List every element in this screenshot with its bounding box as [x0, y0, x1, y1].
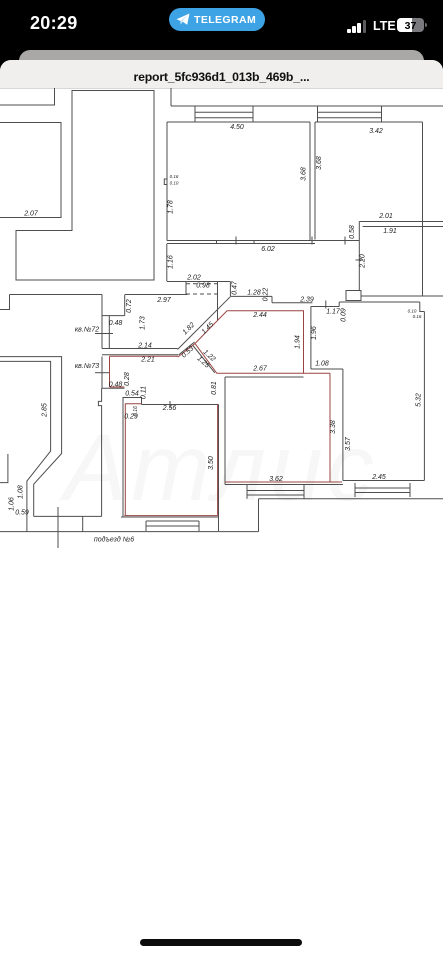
kv72 door jamb walls — [102, 295, 109, 349]
svg-text:5.32: 5.32 — [416, 393, 423, 407]
svg-text:2.21: 2.21 — [140, 357, 155, 364]
right room left wall — [314, 122, 316, 240]
wall 2.20 — [356, 222, 364, 291]
left outer wall with notch — [98, 388, 101, 516]
svg-text:0.47: 0.47 — [232, 280, 239, 295]
wall 6.02 — [167, 240, 359, 242]
wall 0.81 double — [224, 377, 226, 485]
duct shaft — [346, 291, 361, 301]
status clock — [30, 13, 78, 34]
svg-text:0.98: 0.98 — [196, 283, 210, 290]
wall 5.32 — [423, 312, 425, 481]
courtyard upper outline — [0, 295, 102, 310]
dim line 2.39 — [272, 301, 326, 309]
room 3.62 bottom wall — [225, 484, 343, 486]
dim ticks 6.02 — [236, 237, 345, 245]
wall 6.02 lower line — [167, 243, 315, 245]
hall diagonal B — [179, 342, 215, 373]
svg-text:0.72: 0.72 — [126, 299, 133, 313]
big room left wall — [122, 398, 124, 517]
baseline step up — [259, 499, 443, 532]
kv72 leader — [95, 333, 113, 335]
door ticks on 6.02 — [217, 241, 255, 244]
right room inner top wall — [315, 121, 423, 123]
window W2 right room — [318, 106, 382, 122]
stacked background card — [19, 50, 424, 80]
entrance mark — [57, 507, 59, 548]
svg-text:0.48: 0.48 — [109, 382, 123, 389]
wall 0.47 — [230, 282, 272, 297]
svg-text:3.68: 3.68 — [301, 167, 308, 181]
svg-text:2.56: 2.56 — [162, 405, 177, 412]
svg-text:1.94: 1.94 — [295, 335, 302, 349]
svg-text:2.02: 2.02 — [186, 275, 201, 282]
svg-text:2.67: 2.67 — [252, 366, 268, 373]
svg-text:кв.№72: кв.№72 — [75, 327, 99, 334]
svg-text:0.09: 0.09 — [341, 308, 348, 322]
left edge box — [0, 454, 8, 483]
svg-text:2.07: 2.07 — [23, 211, 39, 218]
big room bottom wall — [121, 516, 219, 518]
building baseline — [0, 531, 259, 533]
svg-text:0.28: 0.28 — [124, 372, 131, 386]
big room step top — [123, 398, 142, 405]
wall 1.16 — [166, 244, 168, 281]
svg-text:1.78: 1.78 — [168, 200, 175, 214]
svg-text:0.11: 0.11 — [141, 386, 148, 399]
floor plan SVG inserted here — [0, 88, 443, 648]
svg-text:2.20: 2.20 — [360, 254, 367, 269]
hall diagonal A — [178, 297, 231, 350]
svg-text:0.22: 0.22 — [263, 288, 270, 302]
red room hexagon — [195, 311, 304, 374]
window W4 — [247, 485, 304, 499]
red big room right wall — [217, 405, 219, 516]
svg-text:1.28: 1.28 — [247, 290, 261, 297]
svg-text:0.59: 0.59 — [15, 510, 29, 517]
wall 1.91 — [363, 226, 443, 228]
svg-text:2.85: 2.85 — [42, 403, 49, 418]
svg-text:2.97: 2.97 — [156, 297, 172, 304]
svg-text:1.08: 1.08 — [18, 485, 25, 499]
wall 1.96 — [310, 307, 312, 370]
svg-text:0.10: 0.10 — [170, 181, 179, 186]
red wall 0.48 left — [110, 356, 125, 387]
wall 2.97 — [125, 294, 188, 296]
wall 2.14 — [102, 348, 178, 350]
window W3 bottom — [146, 521, 199, 531]
top-left room stub — [0, 88, 55, 105]
dim line 1.28 — [271, 296, 273, 302]
svg-text:1.17: 1.17 — [326, 309, 341, 316]
red big room left wall — [124, 404, 126, 516]
red corner big room — [125, 403, 141, 405]
central room left wall — [166, 122, 168, 241]
wall 0.72 — [102, 295, 125, 316]
svg-text:0.53: 0.53 — [181, 345, 196, 359]
svg-text:1.91: 1.91 — [383, 228, 397, 235]
svg-text:0.58: 0.58 — [349, 225, 356, 239]
central room inner top wall — [167, 121, 310, 123]
svg-text:0.54: 0.54 — [125, 391, 139, 398]
red room 3.62 bottom — [225, 481, 330, 483]
red big room bottom — [124, 515, 217, 517]
right room right wall — [422, 122, 424, 296]
svg-text:2.01: 2.01 — [378, 213, 393, 220]
svg-text:0.10: 0.10 — [408, 309, 417, 314]
room 2.07 outline — [0, 123, 61, 218]
left lower building inner — [0, 361, 51, 531]
wall to door 0.98 — [167, 282, 231, 321]
home indicator — [140, 939, 302, 946]
room 3.62 top wall — [225, 376, 304, 378]
svg-text:2.39: 2.39 — [299, 297, 314, 304]
wall 1.17 — [311, 306, 339, 308]
central room right wall — [309, 122, 311, 241]
red wall 2.21 — [110, 355, 179, 357]
kv73 leader — [95, 372, 110, 374]
svg-text:4.50: 4.50 — [230, 124, 244, 131]
svg-text:3.42: 3.42 — [369, 128, 383, 135]
window W1 central room — [195, 106, 253, 122]
svg-text:0.81: 0.81 — [211, 381, 218, 395]
wall 2.21 — [102, 354, 178, 356]
window W5 — [355, 483, 410, 497]
big room top wall 2.56 — [142, 401, 219, 408]
wall niche — [164, 179, 167, 185]
svg-text:2.14: 2.14 — [137, 343, 152, 350]
courtyard line left — [34, 516, 102, 531]
svg-text:0.16: 0.16 — [413, 314, 422, 319]
jog walls to lower right room — [361, 295, 443, 297]
svg-text:1.45: 1.45 — [201, 321, 216, 336]
svg-text:1.82: 1.82 — [182, 322, 197, 337]
kv73 jamb wall — [102, 357, 124, 389]
LTE label — [373, 19, 396, 33]
outer top wall line — [171, 88, 443, 106]
red hall diagonal — [178, 344, 195, 358]
battery with percent — [397, 18, 424, 32]
svg-text:1.16: 1.16 — [168, 255, 175, 269]
svg-text:0.16: 0.16 — [170, 174, 179, 179]
svg-text:1.73: 1.73 — [140, 316, 147, 330]
svg-text:1.08: 1.08 — [315, 361, 329, 368]
wall 3.57 — [342, 369, 344, 481]
signal bars — [347, 20, 369, 33]
wall 1.08 right — [311, 368, 343, 370]
svg-text:кв.№73: кв.№73 — [75, 363, 99, 370]
svg-text:0.48: 0.48 — [109, 320, 123, 327]
notch top right — [339, 302, 424, 312]
red wall 3.38 — [330, 373, 342, 482]
svg-text:6.02: 6.02 — [261, 246, 275, 253]
left lower building outer — [0, 357, 62, 517]
svg-text:3.68: 3.68 — [316, 156, 323, 170]
svg-text:Атлис: Атлис — [59, 415, 378, 521]
red jog 1.08 — [304, 372, 331, 374]
big room right wall — [218, 405, 220, 532]
svg-text:2.44: 2.44 — [252, 312, 267, 319]
wall 2.01 — [359, 221, 443, 223]
L-shaped left hall room — [16, 91, 154, 281]
svg-text:подъезд №6: подъезд №6 — [94, 536, 134, 544]
telegram notification pill — [169, 8, 265, 31]
svg-text:1.96: 1.96 — [311, 326, 318, 340]
door 0.98 dashed — [186, 284, 218, 294]
room 2.45 bottom wall — [343, 480, 425, 482]
